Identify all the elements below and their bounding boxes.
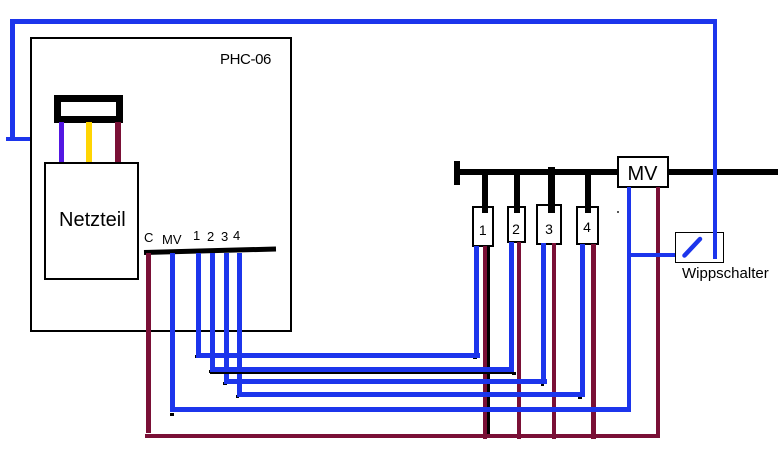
- wire: valve 2 red lead: [517, 242, 522, 439]
- switch lever (blue): [676, 233, 708, 261]
- wire: valve 4 red lead: [591, 244, 596, 439]
- wire: circuit 4 horizontal (blue): [237, 392, 586, 397]
- label PHC-06: [220, 51, 271, 68]
- wire: valve 3 red lead: [552, 243, 557, 439]
- wire: violet lead connector to Netzteil: [59, 122, 65, 163]
- valve head 3: [536, 204, 562, 245]
- wire: circuit 3 horizontal (blue): [224, 379, 547, 384]
- power supply Netzteil: [44, 162, 139, 280]
- label Wippschalter: [682, 265, 769, 282]
- wire: dark-red lead connector to Netzteil: [115, 122, 121, 163]
- wire: MV blue lead: [627, 187, 632, 412]
- wire: hidden black line under circuit 2: [210, 372, 514, 375]
- node tick: circuit 1 right elbow: [473, 356, 477, 359]
- wire: terminal 4 vertical (blue): [237, 253, 242, 397]
- rocker switch box Wippschalter: [675, 232, 724, 263]
- solenoid valve MV box: [617, 156, 669, 188]
- valve stem 4: [585, 172, 591, 213]
- terminal strip (slanted black bar): [140, 244, 280, 258]
- node tick: circuit 2 left elbow: [209, 370, 213, 373]
- wire: terminal C vertical (dark red): [146, 253, 151, 433]
- node tick: MV return right elbow: [624, 409, 628, 412]
- terminal label 2: [207, 229, 214, 244]
- wire: circuit 1 horizontal (blue): [196, 353, 480, 358]
- wire: C bus horizontal bottom (dark red): [145, 434, 661, 439]
- wire: terminal 2 vertical (blue): [210, 253, 215, 372]
- manifold end cap: [454, 161, 460, 185]
- terminal label MV: [162, 232, 182, 247]
- wire: hidden black line beside valve 1 red lead: [487, 246, 490, 434]
- terminal label 1: [193, 228, 200, 243]
- valve stem 3 (extends above pipe): [548, 167, 555, 214]
- label Netzteil: [59, 209, 126, 232]
- wire: terminal 3 vertical (blue): [224, 253, 229, 384]
- node tick: circuit 1 left elbow: [195, 355, 199, 358]
- wire: valve 1 blue lead: [474, 246, 479, 358]
- wire: circuit 2 horizontal (blue): [210, 367, 514, 372]
- valve head 2: [507, 206, 526, 243]
- valve head 1: [472, 206, 494, 247]
- wire: MV return vertical from terminal (blue): [170, 253, 175, 412]
- valve stem 2: [514, 172, 520, 213]
- terminal label 4: [233, 228, 240, 243]
- valve stem 1: [482, 172, 488, 213]
- node tick: circuit 3 left elbow: [223, 382, 227, 385]
- wire: mains feed top horizontal (blue): [10, 19, 717, 24]
- wire: valve 1 red lead: [483, 246, 487, 439]
- connector J1 (mains input block): [54, 95, 123, 123]
- wire: valve 4 blue lead: [580, 244, 585, 397]
- wire: yellow lead connector to Netzteil: [86, 122, 92, 163]
- manifold pipe (black bar): [454, 169, 778, 175]
- wire: valve 2 blue lead: [509, 242, 514, 372]
- enclosure PHC-06: [30, 37, 292, 332]
- wire: blue link MV lead to switch: [627, 253, 685, 257]
- wire: MV return horizontal (blue): [170, 407, 631, 412]
- valve head 4: [576, 206, 599, 246]
- terminal label 3: [221, 229, 228, 244]
- node tick: circuit 4 left elbow: [236, 395, 240, 398]
- wire: mains feed left vertical (blue): [10, 19, 15, 141]
- wire: switch drop vertical right (blue): [713, 19, 718, 259]
- node tick: circuit 4 right elbow: [578, 396, 582, 399]
- node tick: circuit 2 right elbow: [512, 372, 516, 375]
- node tick: circuit 3 right elbow: [541, 383, 545, 386]
- wire: MV red lead: [656, 187, 661, 438]
- node dot near valve 4: [617, 211, 619, 213]
- wire: valve 3 blue lead: [541, 243, 546, 384]
- wire: mains feed stub to Netzteil (blue): [6, 137, 63, 142]
- terminal label C: [144, 230, 153, 245]
- wire: terminal 1 vertical (blue): [196, 253, 201, 357]
- node tick: MV return left elbow: [170, 413, 174, 416]
